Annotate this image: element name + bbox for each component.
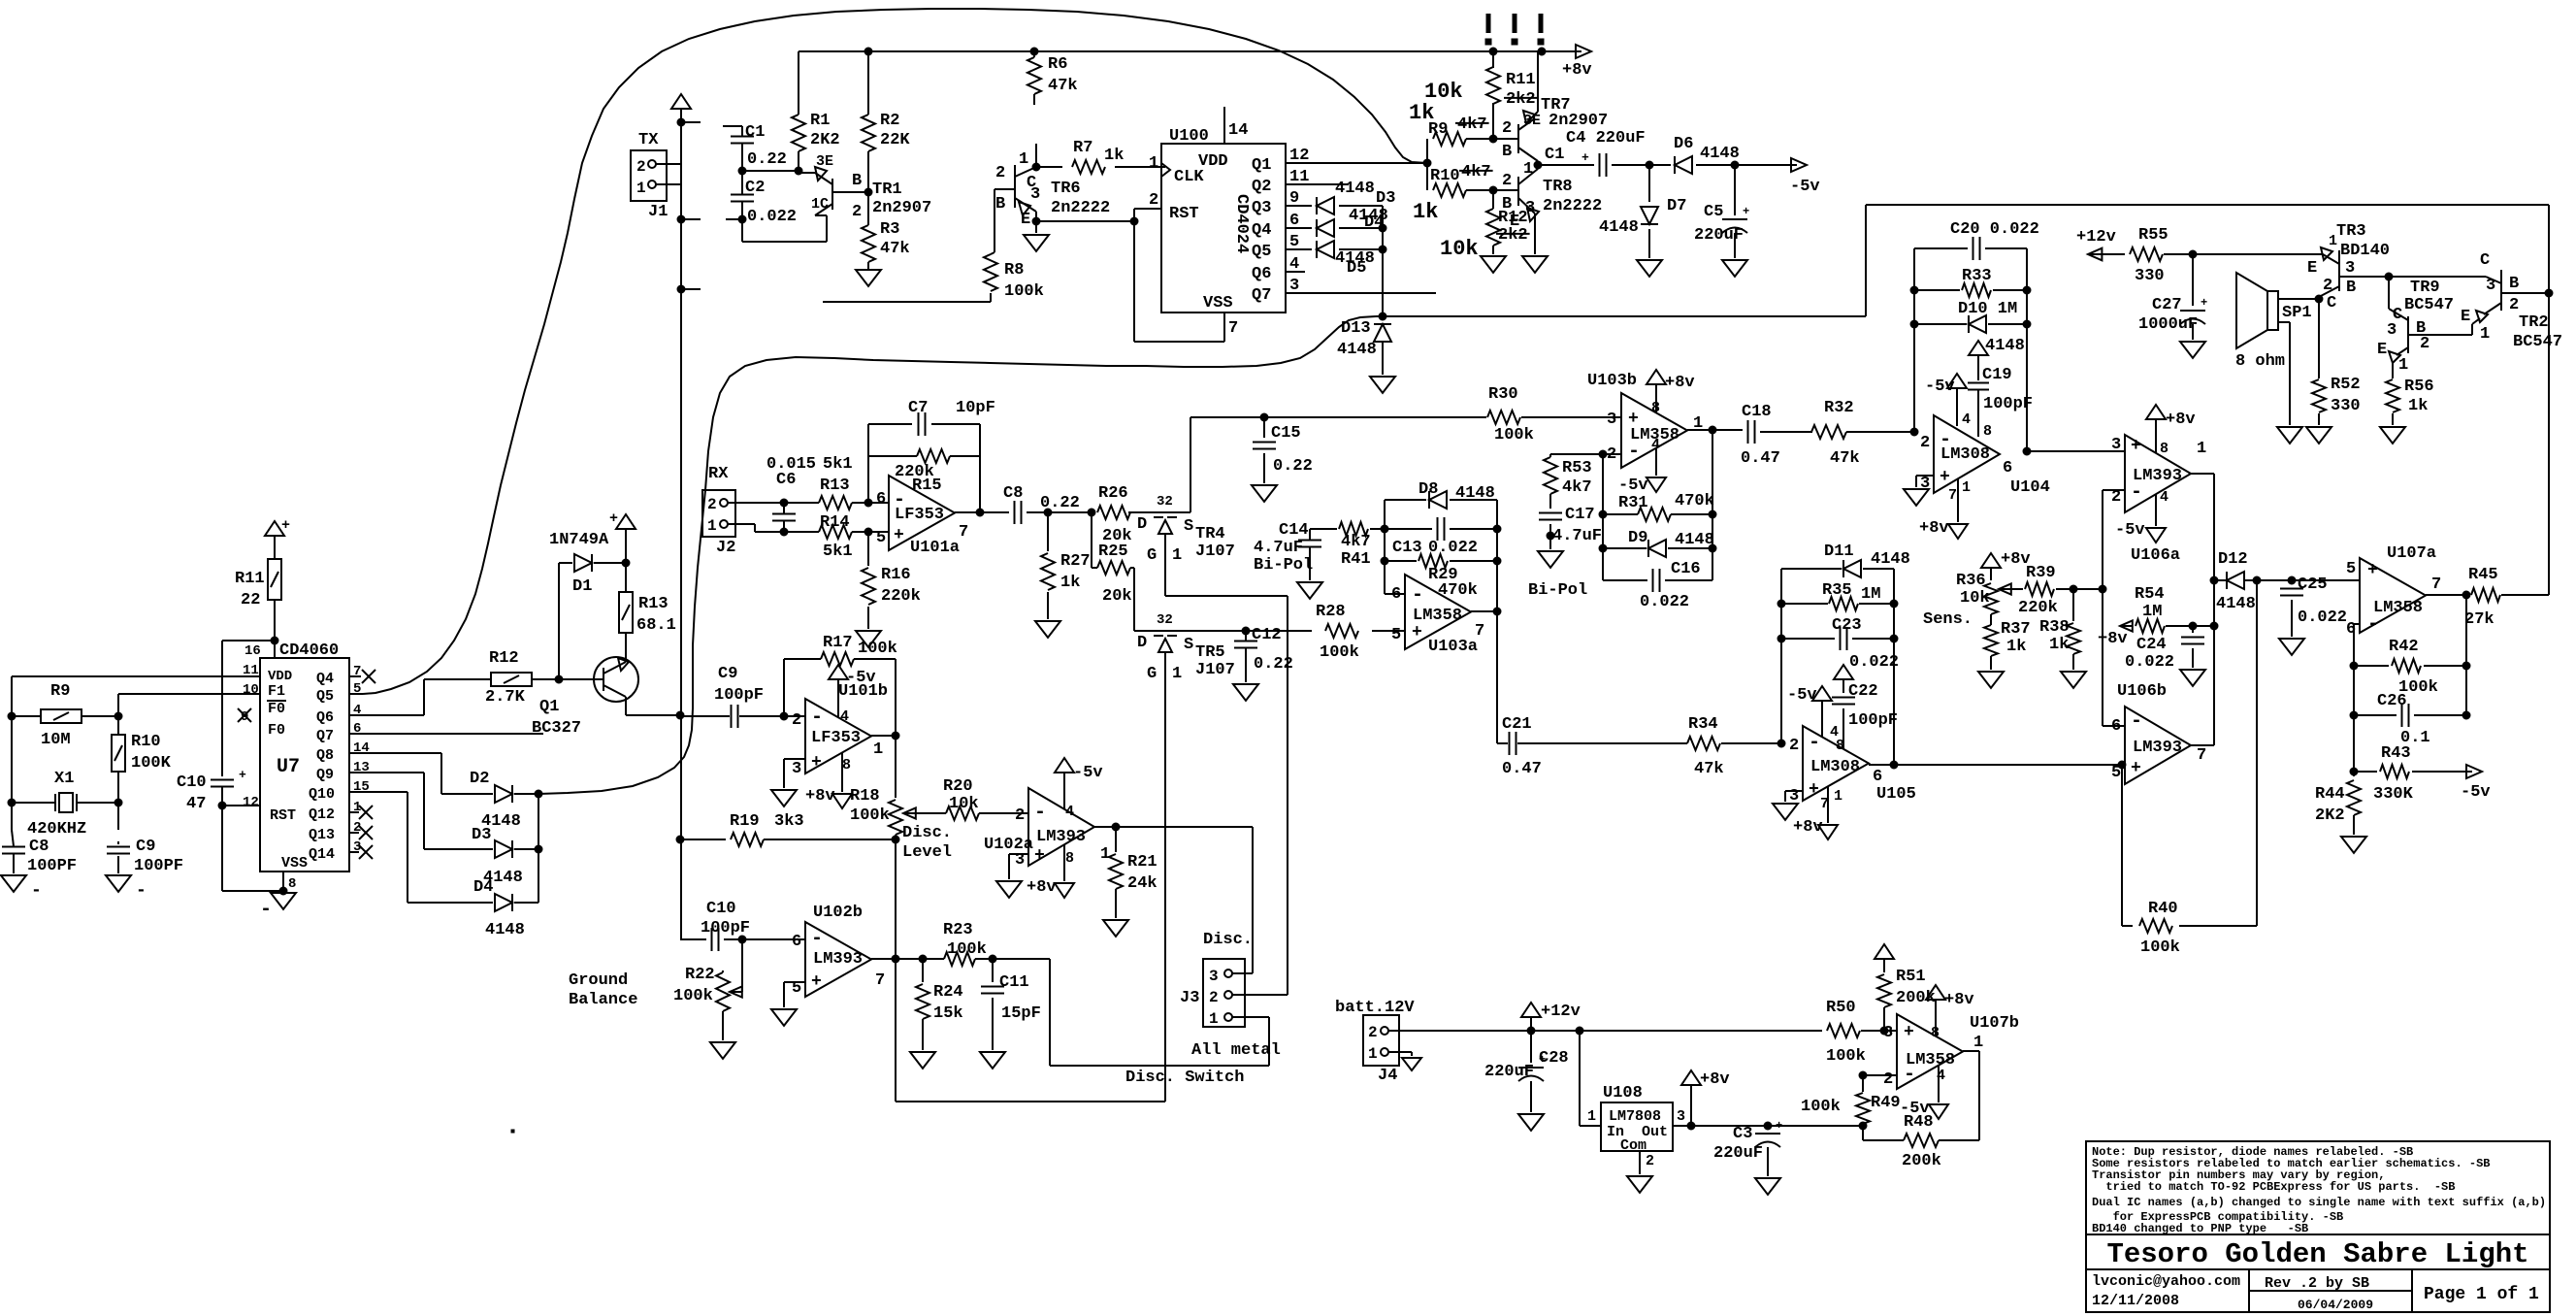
svg-text:4k7: 4k7 <box>1461 163 1491 181</box>
svg-text:R9: R9 <box>50 682 70 701</box>
svg-text:TR6: TR6 <box>1051 180 1081 198</box>
svg-text:2: 2 <box>2323 277 2332 295</box>
svg-text:220uF: 220uF <box>1484 1063 1534 1081</box>
svg-text:1k: 1k <box>1060 574 1080 592</box>
svg-text:2: 2 <box>636 158 646 176</box>
svg-text:R28: R28 <box>1316 603 1346 621</box>
svg-text:1: 1 <box>1172 546 1182 565</box>
svg-text:2: 2 <box>1015 806 1025 825</box>
svg-text:2: 2 <box>2420 335 2429 353</box>
svg-text:LM308: LM308 <box>1940 445 1990 464</box>
svg-text:+: + <box>811 753 822 773</box>
svg-text:4k7: 4k7 <box>1341 533 1371 551</box>
svg-text:Disc.: Disc. <box>902 824 952 842</box>
svg-text:+: + <box>1776 1119 1782 1133</box>
svg-text:lvconic@yahoo.com: lvconic@yahoo.com <box>2092 1273 2240 1290</box>
svg-text:CD4024: CD4024 <box>1232 194 1251 253</box>
svg-text:+: + <box>894 526 904 545</box>
svg-text:1: 1 <box>1834 788 1842 805</box>
svg-text:J107: J107 <box>1195 661 1235 679</box>
svg-text:3: 3 <box>2345 259 2355 278</box>
svg-text:C4 220uF: C4 220uF <box>1566 129 1646 148</box>
svg-text:1000uF: 1000uF <box>2138 315 2198 334</box>
svg-text:3: 3 <box>1883 1024 1893 1042</box>
svg-text:2k2: 2k2 <box>1498 226 1528 245</box>
svg-text:B: B <box>2509 275 2519 293</box>
svg-text:C21: C21 <box>1502 715 1532 734</box>
svg-text:420KHZ: 420KHZ <box>27 820 86 839</box>
svg-text:LM358: LM358 <box>2373 599 2423 617</box>
svg-text:F0: F0 <box>268 722 285 739</box>
svg-text:0.022: 0.022 <box>747 208 797 226</box>
svg-text:+: + <box>1809 780 1819 800</box>
svg-text:Q6: Q6 <box>1252 265 1271 283</box>
svg-text:RX: RX <box>708 465 729 483</box>
svg-text:Com: Com <box>1620 1137 1647 1154</box>
svg-text:4148: 4148 <box>1700 145 1740 163</box>
svg-text:5: 5 <box>876 529 886 547</box>
svg-text:220uF: 220uF <box>1713 1144 1763 1163</box>
svg-text:R51: R51 <box>1896 968 1926 986</box>
svg-text:6: 6 <box>1873 768 1882 786</box>
svg-text:R13: R13 <box>820 477 850 495</box>
svg-text:-: - <box>2131 710 2142 733</box>
svg-text:CLK: CLK <box>1174 168 1204 186</box>
svg-text:U101a: U101a <box>910 539 960 557</box>
svg-text:U106a: U106a <box>2131 546 2180 565</box>
svg-text:1C: 1C <box>811 196 829 213</box>
svg-text:LM358: LM358 <box>1413 607 1462 625</box>
svg-text:47: 47 <box>186 795 206 813</box>
svg-text:-: - <box>31 881 42 901</box>
svg-text:R9: R9 <box>1428 120 1448 139</box>
svg-text:3: 3 <box>1607 411 1616 429</box>
svg-text:Bi-Pol: Bi-Pol <box>1528 581 1587 600</box>
svg-text:+: + <box>2367 561 2378 580</box>
svg-text:+8v: +8v <box>1027 878 1057 897</box>
svg-text:+: + <box>1034 846 1045 866</box>
svg-text:1M: 1M <box>2142 603 2162 621</box>
svg-text:Tesoro Golden Sabre Light: Tesoro Golden Sabre Light <box>2106 1238 2528 1270</box>
svg-text:32: 32 <box>1157 612 1173 628</box>
svg-text:U7: U7 <box>277 756 300 778</box>
svg-text:3: 3 <box>792 760 801 778</box>
svg-text:1: 1 <box>2329 233 2337 249</box>
svg-text:U100: U100 <box>1169 127 1209 146</box>
svg-text:+: + <box>1581 150 1589 165</box>
svg-text:2: 2 <box>1920 434 1930 452</box>
svg-text:4148: 4148 <box>2216 595 2256 613</box>
svg-text:C27: C27 <box>2152 296 2182 314</box>
svg-text:+: + <box>2201 296 2207 310</box>
svg-text:J4: J4 <box>1378 1067 1397 1085</box>
svg-text:R6: R6 <box>1048 55 1067 74</box>
svg-text:1: 1 <box>636 180 646 197</box>
svg-text:2: 2 <box>1149 191 1158 210</box>
svg-text:22: 22 <box>241 591 260 609</box>
svg-text:3E: 3E <box>816 153 833 170</box>
svg-text:0.022: 0.022 <box>1428 539 1478 557</box>
svg-text:U103a: U103a <box>1428 638 1478 656</box>
svg-text:-5v: -5v <box>2461 783 2491 802</box>
svg-text:2K2: 2K2 <box>810 131 840 149</box>
svg-text:LM358: LM358 <box>1906 1051 1955 1069</box>
svg-text:U103b: U103b <box>1587 372 1637 390</box>
svg-text:R37: R37 <box>2001 620 2031 639</box>
svg-text:C5: C5 <box>1704 203 1723 221</box>
svg-text:Q1: Q1 <box>1252 156 1271 175</box>
svg-text:3: 3 <box>2387 321 2397 340</box>
svg-text:3: 3 <box>1677 1108 1685 1125</box>
svg-text:5: 5 <box>1391 626 1401 644</box>
svg-text:+: + <box>609 510 618 527</box>
svg-text:2: 2 <box>1883 1070 1893 1089</box>
svg-text:CD4060: CD4060 <box>279 642 339 660</box>
svg-text:1k: 1k <box>1413 200 1438 224</box>
svg-text:R50: R50 <box>1826 999 1856 1017</box>
svg-text:Q8: Q8 <box>316 747 334 764</box>
svg-text:R3: R3 <box>880 220 899 239</box>
svg-text:Balance: Balance <box>569 991 637 1009</box>
svg-text:100pF: 100pF <box>1848 711 1898 730</box>
svg-text:Q6: Q6 <box>316 709 334 726</box>
svg-text:220k: 220k <box>881 587 921 606</box>
svg-text:3: 3 <box>1030 185 1040 204</box>
svg-text:Q1: Q1 <box>539 698 559 716</box>
svg-text:2: 2 <box>1209 989 1219 1006</box>
svg-text:100K: 100K <box>131 754 172 773</box>
svg-text:2: 2 <box>707 496 717 513</box>
svg-text:E: E <box>2307 259 2317 278</box>
svg-text:8 ohm: 8 ohm <box>2235 352 2285 371</box>
svg-text:7: 7 <box>959 523 968 542</box>
svg-text:Q5: Q5 <box>1252 243 1271 261</box>
svg-text:U102a: U102a <box>984 836 1033 854</box>
svg-text:0.022: 0.022 <box>2125 653 2174 672</box>
svg-text:U102b: U102b <box>813 904 863 922</box>
svg-text:3E: 3E <box>1523 113 1541 129</box>
svg-text:1k: 1k <box>2006 638 2026 656</box>
svg-text:1: 1 <box>1172 665 1182 683</box>
svg-text:R10: R10 <box>1430 167 1460 185</box>
svg-text:10k: 10k <box>1440 237 1479 261</box>
svg-text:100k: 100k <box>1826 1047 1866 1066</box>
svg-text:C11: C11 <box>999 973 1029 992</box>
svg-text:S: S <box>1184 636 1193 654</box>
svg-text:Q10: Q10 <box>309 786 335 803</box>
svg-text:2n2907: 2n2907 <box>1549 112 1608 130</box>
svg-text:1: 1 <box>1587 1108 1596 1125</box>
svg-text:C24: C24 <box>2136 636 2167 654</box>
svg-text:16: 16 <box>245 643 261 659</box>
svg-text:100k: 100k <box>2140 938 2180 957</box>
svg-text:D11: D11 <box>1824 543 1854 561</box>
svg-text:-: - <box>260 899 272 921</box>
svg-text:-: - <box>1809 732 1820 754</box>
svg-text:4: 4 <box>1962 411 1971 428</box>
svg-text:2n2222: 2n2222 <box>1051 199 1110 217</box>
svg-text:4: 4 <box>1065 804 1074 820</box>
svg-text:4.7uF: 4.7uF <box>1254 539 1303 557</box>
svg-text:BD140 changed to PNP type -S: BD140 changed to PNP type -SB <box>2092 1222 2308 1235</box>
svg-text:100k: 100k <box>1004 282 1044 301</box>
svg-text:R2: R2 <box>880 112 899 130</box>
svg-text:3: 3 <box>1209 968 1219 985</box>
svg-text:+12v: +12v <box>2076 228 2116 247</box>
svg-text:J3: J3 <box>1180 989 1199 1007</box>
svg-text:R34: R34 <box>1688 715 1718 734</box>
svg-text:B: B <box>2346 279 2356 297</box>
svg-text:LM393: LM393 <box>1036 828 1086 846</box>
svg-text:+: + <box>811 972 822 992</box>
svg-text:+8v: +8v <box>1793 818 1823 837</box>
svg-text:LM7808: LM7808 <box>1609 1108 1661 1125</box>
svg-text:LM393: LM393 <box>2133 739 2182 757</box>
svg-text:4148: 4148 <box>1455 484 1495 503</box>
svg-text:R54: R54 <box>2135 585 2165 604</box>
svg-text:4148: 4148 <box>1337 341 1377 359</box>
svg-text:R41: R41 <box>1341 550 1371 569</box>
svg-text:Page 1 of 1: Page 1 of 1 <box>2424 1285 2539 1304</box>
svg-text:100k: 100k <box>1320 643 1359 662</box>
svg-text:10pF: 10pF <box>956 399 995 417</box>
svg-text:47k: 47k <box>1048 77 1078 95</box>
svg-text:2: 2 <box>2509 296 2519 314</box>
svg-text:+: + <box>1940 468 1950 487</box>
svg-text:VSS: VSS <box>281 855 308 872</box>
svg-text:S: S <box>1184 517 1193 536</box>
svg-text:R49: R49 <box>1871 1094 1901 1112</box>
svg-text:-5v: -5v <box>2115 521 2145 540</box>
svg-text:B: B <box>995 195 1005 214</box>
svg-text:0.22: 0.22 <box>1273 457 1313 476</box>
svg-text:TR5: TR5 <box>1195 643 1225 662</box>
svg-text:C28: C28 <box>1539 1049 1569 1068</box>
svg-text:X1: X1 <box>54 770 74 788</box>
svg-text:R19: R19 <box>730 812 760 831</box>
svg-text:100k: 100k <box>850 806 890 825</box>
svg-text:100PF: 100PF <box>27 857 77 875</box>
svg-text:D1: D1 <box>572 577 592 596</box>
svg-text:D7: D7 <box>1667 197 1686 215</box>
svg-text:8: 8 <box>1836 738 1844 754</box>
svg-text:1: 1 <box>1100 845 1110 864</box>
svg-text:R12: R12 <box>1498 209 1528 227</box>
svg-text:1: 1 <box>2197 440 2206 458</box>
svg-text:E: E <box>2377 341 2387 359</box>
svg-text:2k2: 2k2 <box>1506 90 1536 109</box>
svg-text:R39: R39 <box>2026 564 2056 582</box>
svg-text:R38: R38 <box>2039 618 2070 637</box>
svg-text:100k: 100k <box>1801 1098 1841 1116</box>
svg-text:R30: R30 <box>1488 385 1518 404</box>
svg-text:5k1: 5k1 <box>823 455 853 474</box>
svg-text:LM308: LM308 <box>1810 758 1860 776</box>
svg-text:-: - <box>811 707 823 729</box>
svg-text:200k: 200k <box>1902 1152 1941 1170</box>
svg-text:15k: 15k <box>933 1004 963 1023</box>
svg-text:R40: R40 <box>2148 900 2178 918</box>
svg-text:R36: R36 <box>1956 572 1986 590</box>
svg-text:B: B <box>1502 143 1512 161</box>
svg-text:D: D <box>1137 634 1147 652</box>
svg-text:24k: 24k <box>1127 874 1158 893</box>
svg-text:+8v: +8v <box>2098 630 2128 648</box>
svg-text:2.7K: 2.7K <box>485 688 526 707</box>
svg-text:J1: J1 <box>648 203 668 221</box>
svg-text:7: 7 <box>2197 746 2206 765</box>
svg-text:100pF: 100pF <box>714 686 764 705</box>
svg-text:D: D <box>1137 515 1147 534</box>
svg-text:4148: 4148 <box>1599 218 1639 237</box>
svg-text:R11: R11 <box>1506 71 1536 89</box>
svg-text:6: 6 <box>792 933 801 951</box>
svg-text:27k: 27k <box>2464 610 2494 629</box>
svg-text:D2: D2 <box>470 770 489 788</box>
svg-text:SP1: SP1 <box>2282 304 2312 322</box>
svg-text:Level: Level <box>902 843 952 862</box>
svg-text:4148: 4148 <box>1871 550 1910 569</box>
svg-text:R22: R22 <box>685 966 715 984</box>
svg-text:F1: F1 <box>268 683 285 700</box>
svg-text:C3: C3 <box>1733 1125 1752 1143</box>
svg-text:R24: R24 <box>933 983 963 1002</box>
svg-text:330: 330 <box>2135 267 2165 285</box>
svg-text:Q5: Q5 <box>316 688 334 705</box>
svg-text:2: 2 <box>1502 119 1512 138</box>
svg-text:4.7uF: 4.7uF <box>1552 527 1602 545</box>
svg-text:Q13: Q13 <box>309 827 335 843</box>
svg-text:100k: 100k <box>947 940 987 959</box>
svg-text:R25: R25 <box>1098 543 1128 561</box>
svg-text:D10 1M: D10 1M <box>1958 300 2017 318</box>
svg-text:R27: R27 <box>1060 552 1091 571</box>
svg-text:J107: J107 <box>1195 543 1235 561</box>
svg-text:C9: C9 <box>718 665 737 683</box>
svg-text:BC547: BC547 <box>2513 333 2562 351</box>
svg-text:BC547: BC547 <box>2404 296 2454 314</box>
svg-text:E: E <box>2461 308 2470 326</box>
svg-text:1k: 1k <box>2049 636 2069 654</box>
svg-text:200k: 200k <box>1896 989 1936 1007</box>
svg-text:220k: 220k <box>2018 599 2058 617</box>
svg-text:LF353: LF353 <box>895 506 944 524</box>
svg-text:+: + <box>281 517 290 534</box>
svg-text:7: 7 <box>2431 576 2441 594</box>
svg-text:U107b: U107b <box>1970 1014 2019 1033</box>
svg-text:R12: R12 <box>489 649 519 668</box>
svg-text:-: - <box>1412 584 1423 607</box>
svg-text:1M: 1M <box>1861 585 1880 604</box>
svg-text:+8v: +8v <box>805 787 835 806</box>
svg-text:2: 2 <box>792 711 801 730</box>
svg-text:U104: U104 <box>2010 478 2050 497</box>
svg-text:Q7: Q7 <box>316 728 334 744</box>
svg-text:6: 6 <box>2003 459 2012 477</box>
svg-text:2: 2 <box>1368 1024 1378 1041</box>
svg-text:C8: C8 <box>29 838 49 856</box>
svg-text:D9: D9 <box>1628 529 1647 547</box>
svg-text:1: 1 <box>707 517 717 535</box>
svg-text:G: G <box>1147 546 1157 565</box>
svg-text:Q9: Q9 <box>316 767 334 783</box>
svg-text:1k: 1k <box>2408 397 2428 415</box>
svg-text:100PF: 100PF <box>134 857 183 875</box>
svg-text:4: 4 <box>840 708 849 725</box>
svg-text:B: B <box>852 172 862 190</box>
svg-text:2: 2 <box>1502 172 1512 190</box>
svg-text:1: 1 <box>2398 356 2408 375</box>
svg-text:1: 1 <box>1973 1034 1983 1052</box>
svg-text:6: 6 <box>876 490 886 509</box>
svg-text:4148: 4148 <box>1675 531 1714 549</box>
svg-text:15pF: 15pF <box>1001 1004 1041 1023</box>
svg-text:J2: J2 <box>716 539 735 557</box>
svg-text:C2: C2 <box>745 179 765 197</box>
svg-text:-: - <box>1034 802 1046 824</box>
svg-text:1: 1 <box>1019 150 1028 169</box>
svg-text:C26: C26 <box>2377 692 2407 710</box>
svg-text:C8: C8 <box>1003 484 1023 503</box>
svg-text:1: 1 <box>1149 154 1158 173</box>
svg-text:Disc. Switch: Disc. Switch <box>1125 1069 1244 1087</box>
svg-text:10k: 10k <box>1960 589 1990 608</box>
svg-text:Q12: Q12 <box>309 806 335 823</box>
svg-text:12/11/2008: 12/11/2008 <box>2092 1293 2179 1309</box>
svg-text:TR9: TR9 <box>2410 279 2440 297</box>
svg-text:R45: R45 <box>2468 566 2498 584</box>
svg-text:+8v: +8v <box>2166 411 2196 429</box>
svg-text:+: + <box>2131 437 2141 456</box>
svg-text:7: 7 <box>1228 319 1238 338</box>
svg-text:C7: C7 <box>908 399 928 417</box>
svg-text:100k: 100k <box>673 987 713 1005</box>
svg-text:VDD: VDD <box>268 669 292 684</box>
svg-text:+: + <box>1743 205 1749 218</box>
svg-text:+8v: +8v <box>1562 61 1592 80</box>
svg-text:2K2: 2K2 <box>2315 806 2345 825</box>
svg-text:47k: 47k <box>1694 760 1724 778</box>
svg-text:C13: C13 <box>1392 539 1422 557</box>
svg-text:All metal: All metal <box>1191 1041 1281 1060</box>
svg-text:2: 2 <box>852 203 862 221</box>
svg-text:1: 1 <box>873 740 883 759</box>
svg-text:10: 10 <box>243 682 259 698</box>
svg-text:C17: C17 <box>1565 506 1595 524</box>
svg-text:C22: C22 <box>1848 682 1878 701</box>
svg-text:+: + <box>239 768 246 782</box>
svg-text:1: 1 <box>1209 1010 1219 1028</box>
svg-text:10M: 10M <box>41 731 71 749</box>
svg-text:2n2907: 2n2907 <box>872 199 931 217</box>
svg-text:D3: D3 <box>1376 189 1395 208</box>
svg-text:C25: C25 <box>2298 576 2328 594</box>
svg-text:100pF: 100pF <box>1983 395 2033 413</box>
svg-text:LM393: LM393 <box>2133 467 2182 485</box>
svg-text:6: 6 <box>1391 585 1401 604</box>
svg-text:C20 0.022: C20 0.022 <box>1950 220 2039 239</box>
svg-text:14: 14 <box>1228 121 1248 140</box>
svg-text:LF353: LF353 <box>811 729 861 747</box>
svg-text:-: - <box>136 881 147 901</box>
svg-text:+: + <box>1904 1023 1914 1042</box>
svg-text:47k: 47k <box>1830 449 1860 468</box>
svg-text:-5v: -5v <box>1925 378 1955 396</box>
svg-text:4k7: 4k7 <box>1562 478 1592 497</box>
svg-text:+: + <box>1412 623 1422 642</box>
svg-text:G: G <box>1147 665 1157 683</box>
svg-text:470k: 470k <box>1675 492 1714 510</box>
